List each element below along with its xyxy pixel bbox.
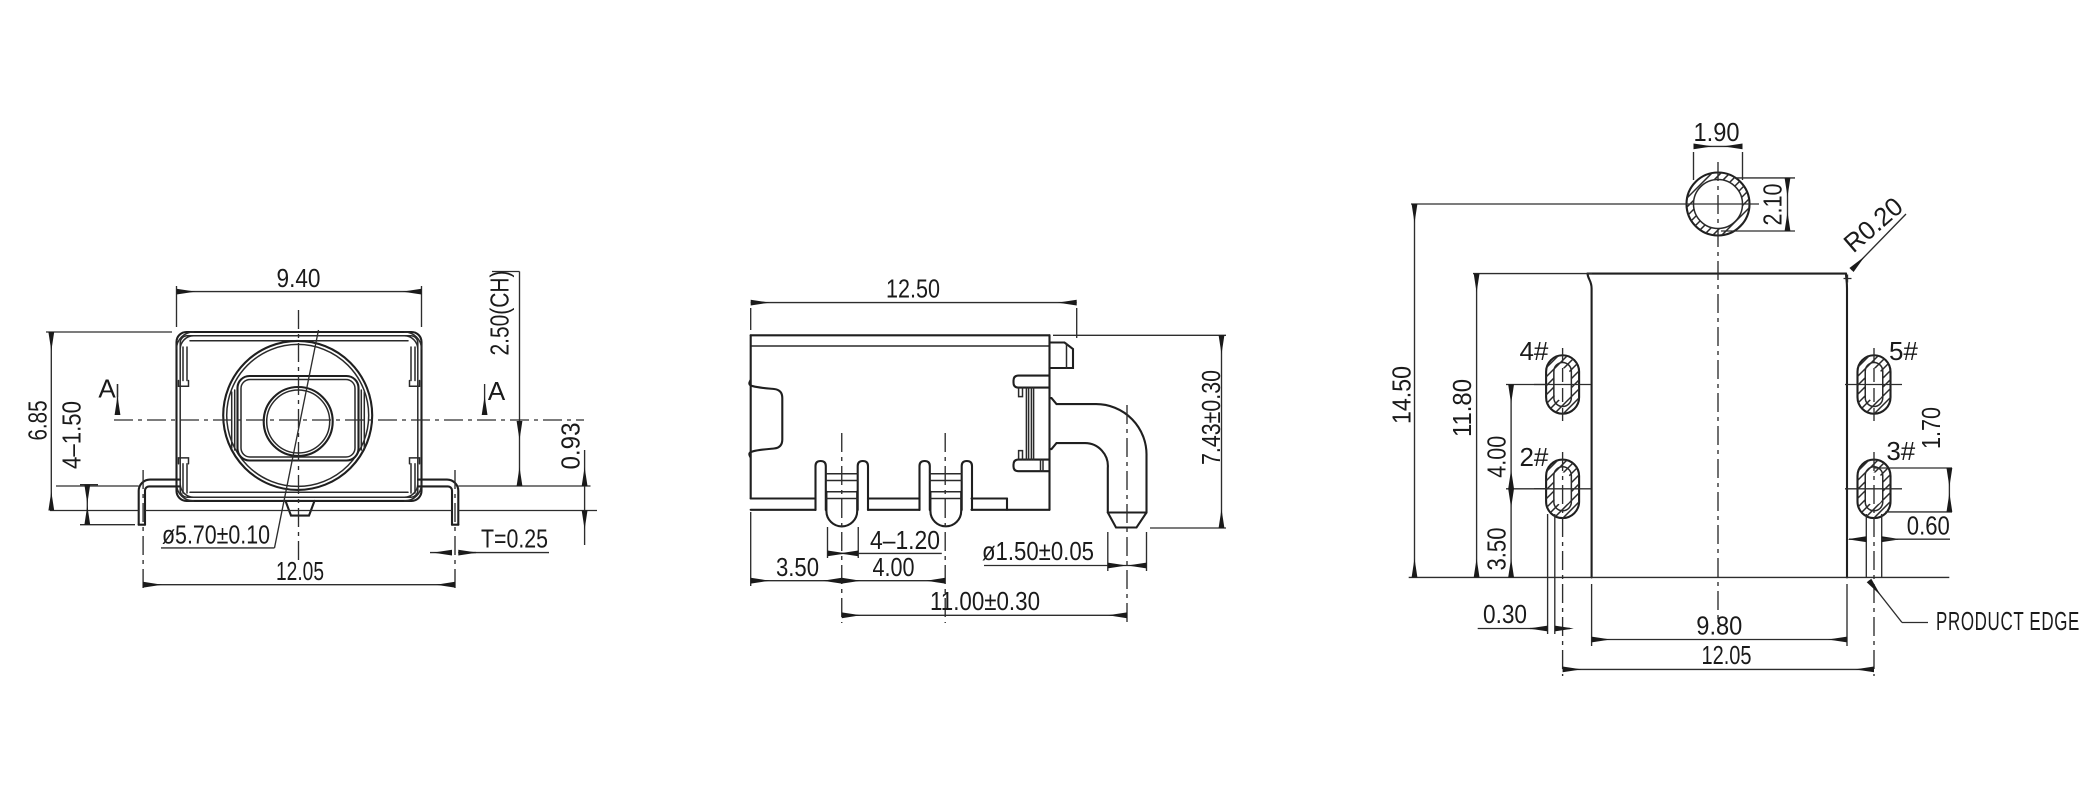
seating plane line <box>56 485 591 487</box>
pad 3# lead lines <box>1866 514 1881 578</box>
svg-text:0.93: 0.93 <box>556 423 586 470</box>
left mounting leg <box>139 480 180 525</box>
side key tabs <box>232 390 365 450</box>
svg-text:4–1.50: 4–1.50 <box>57 401 87 469</box>
cover opening circle <box>223 341 372 490</box>
label T=0.25 <box>430 524 549 554</box>
section mark A right <box>485 376 506 415</box>
svg-text:1.70: 1.70 <box>1916 407 1946 449</box>
leg centerlines <box>842 433 945 623</box>
dimension 7.43 <box>1053 335 1226 528</box>
right mounting leg <box>418 480 458 525</box>
bent terminal pin (side) <box>1050 398 1147 527</box>
svg-text:12.50: 12.50 <box>886 274 940 304</box>
dimension 3.50 right <box>1482 489 1512 578</box>
svg-text:3.50: 3.50 <box>776 552 819 582</box>
main vertical centerline <box>1717 162 1719 620</box>
label R0.20 <box>1838 191 1909 270</box>
dimension 3.50 <box>751 512 842 586</box>
svg-text:11.80: 11.80 <box>1447 379 1477 437</box>
dimension 9.80 <box>1592 584 1847 646</box>
body cover outline (front view) <box>177 332 422 501</box>
dimension 14.50 <box>1387 204 1760 577</box>
svg-text:11.00±0.30: 11.00±0.30 <box>930 586 1040 616</box>
dimension 12.05 right <box>1563 640 1874 670</box>
svg-text:2.50(CH): 2.50(CH) <box>485 271 515 356</box>
dimension 11.80 <box>1447 274 1592 578</box>
pcb surface line <box>50 510 597 512</box>
dimension 2.10 <box>1721 178 1795 231</box>
product outline rectangle <box>1588 274 1848 578</box>
label PRODUCT EDGE <box>1869 581 2080 637</box>
svg-text:PRODUCT EDGE: PRODUCT EDGE <box>1936 606 2080 636</box>
product edge line <box>1409 576 1950 578</box>
svg-text:2#: 2# <box>1519 442 1548 472</box>
svg-text:A: A <box>488 376 506 406</box>
svg-text:5#: 5# <box>1889 336 1918 366</box>
corner mark cross <box>1844 275 1852 283</box>
svg-text:A: A <box>98 374 116 404</box>
pad 5# <box>1845 348 1902 421</box>
horizontal centerline <box>114 419 584 421</box>
svg-text:3.50: 3.50 <box>1482 528 1512 571</box>
dimension 1.70 <box>1875 407 1952 512</box>
top-right tab <box>1050 343 1074 369</box>
section mark A left <box>98 374 117 416</box>
svg-text:2.10: 2.10 <box>1758 184 1788 226</box>
dimension 11.00 <box>842 586 1127 616</box>
svg-text:T=0.25: T=0.25 <box>481 524 548 554</box>
pad 4# <box>1534 348 1591 421</box>
svg-text:0.60: 0.60 <box>1907 511 1950 541</box>
svg-text:4.00: 4.00 <box>1482 436 1512 478</box>
dimension 4.00 right <box>1482 385 1547 489</box>
dimension 0.60 <box>1849 511 1950 541</box>
actuator frame bottom bar <box>1014 460 1050 472</box>
dimension 4-1.20 <box>828 525 942 558</box>
body outline (side view) <box>751 335 1050 510</box>
locating boss circle <box>1684 170 1752 238</box>
svg-text:4#: 4# <box>1519 336 1548 366</box>
svg-text:ø5.70±0.10: ø5.70±0.10 <box>162 520 270 550</box>
dimension 4.00 <box>842 552 945 582</box>
svg-text:9.40: 9.40 <box>277 263 321 293</box>
pad 2# <box>1534 452 1591 676</box>
svg-text:9.80: 9.80 <box>1696 611 1742 641</box>
label diameter 1.50 <box>982 532 1147 571</box>
label diameter 5.70 <box>161 330 319 550</box>
svg-text:3#: 3# <box>1886 436 1915 466</box>
svg-text:6.85: 6.85 <box>23 401 53 441</box>
dimension 12.50 <box>751 274 1077 339</box>
left wall rib and feet <box>179 347 189 493</box>
right wall rib and feet <box>410 347 420 493</box>
svg-text:12.05: 12.05 <box>1702 640 1752 670</box>
svg-text:0.30: 0.30 <box>1483 599 1527 629</box>
pad 2# lead lines <box>1548 514 1555 634</box>
center button circle <box>264 387 333 456</box>
dimension 2.50(CH) <box>485 271 520 487</box>
svg-text:ø1.50±0.05: ø1.50±0.05 <box>982 536 1094 566</box>
dimension 12.05 <box>143 470 455 592</box>
actuator squircle <box>238 376 359 461</box>
actuator frame corner clips <box>1019 388 1023 460</box>
dimension 4-1.50 <box>57 401 136 525</box>
dimension 0.93 <box>556 423 586 546</box>
bottom center tab <box>286 501 315 516</box>
svg-text:14.50: 14.50 <box>1387 366 1417 424</box>
svg-text:4–1.20: 4–1.20 <box>870 525 940 555</box>
dimension 6.85 <box>23 332 173 511</box>
dimension 0.30 <box>1478 599 1570 629</box>
side button silhouette <box>749 380 782 458</box>
pad 3# <box>1845 452 1902 676</box>
body corner relief arcs <box>177 332 422 501</box>
dimension 1.90 <box>1694 117 1743 180</box>
dimension 9.40 <box>177 263 422 327</box>
svg-text:7.43±0.30: 7.43±0.30 <box>1196 370 1226 465</box>
pin centerline <box>1126 405 1128 625</box>
solder leg 1 (side) <box>816 461 869 526</box>
solder leg 2 (side) <box>920 461 973 526</box>
actuator frame top bar <box>1014 376 1050 388</box>
vertical centerline <box>298 310 300 560</box>
svg-text:4.00: 4.00 <box>873 552 915 582</box>
svg-text:1.90: 1.90 <box>1694 117 1740 147</box>
actuator plate <box>1026 388 1043 472</box>
svg-text:12.05: 12.05 <box>276 556 324 586</box>
